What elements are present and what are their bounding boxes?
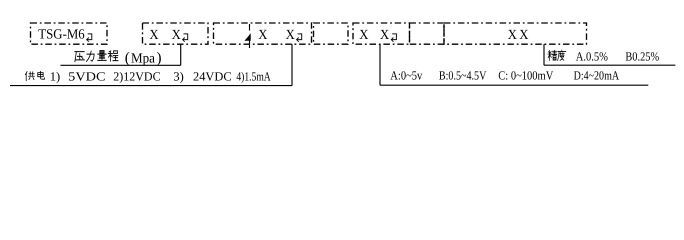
- linebreak mark field 2: [297, 34, 302, 42]
- svg-text:Mpa: Mpa: [131, 51, 156, 66]
- svg-text:2)12VDC: 2)12VDC: [113, 69, 160, 83]
- box XX field 1: [143, 23, 209, 44]
- small digit 4: [246, 34, 251, 41]
- svg-text:X: X: [258, 28, 267, 43]
- svg-text:TSG-M6: TSG-M6: [38, 28, 84, 43]
- svg-text:(: (: [125, 50, 130, 67]
- svg-text:A:0~5v: A:0~5v: [390, 69, 423, 83]
- label 压力量程: [75, 52, 85, 62]
- svg-text:B:0.5~4.5V: B:0.5~4.5V: [439, 69, 487, 83]
- box empty small 2: [410, 23, 445, 44]
- callout pressure-range underline: [61, 64, 181, 66]
- svg-text:X: X: [380, 28, 389, 43]
- callout output underline: [380, 84, 648, 86]
- svg-text:): ): [156, 50, 161, 67]
- svg-text:A.0.5%: A.0.5%: [576, 49, 608, 63]
- svg-text:5VDC: 5VDC: [68, 69, 105, 83]
- linebreak mark after TSG-M6: [87, 34, 92, 42]
- svg-text:C: 0~100mV: C: 0~100mV: [498, 69, 553, 83]
- svg-text:X: X: [359, 28, 368, 43]
- box TSG-M6: [31, 23, 108, 44]
- callout output riser: [379, 44, 381, 85]
- svg-text:D:4~20mA: D:4~20mA: [574, 69, 620, 83]
- callout supply underline: [10, 85, 292, 87]
- box empty small 1: [314, 23, 349, 44]
- svg-text:X: X: [286, 28, 295, 43]
- callout accuracy underline: [544, 64, 675, 66]
- svg-text:1): 1): [50, 69, 60, 83]
- callout supply riser: [291, 44, 293, 85]
- svg-text:B0.25%: B0.25%: [625, 49, 659, 63]
- svg-text:X: X: [172, 28, 181, 43]
- box XX field 4: [444, 23, 587, 44]
- label 供电: [25, 72, 34, 81]
- svg-text:X: X: [149, 28, 158, 43]
- linebreak mark field 1: [183, 34, 188, 42]
- box XX field 3: [353, 23, 410, 44]
- svg-text:24VDC: 24VDC: [193, 69, 232, 83]
- callout pressure-range riser: [180, 44, 182, 65]
- linebreak mark field 3: [391, 34, 396, 42]
- divider dash in box field 2: [249, 24, 251, 48]
- svg-text:X: X: [519, 28, 528, 43]
- box XX field 2: [214, 23, 312, 44]
- svg-text:X: X: [508, 28, 517, 43]
- svg-text:3): 3): [173, 69, 183, 83]
- callout accuracy riser: [543, 44, 545, 65]
- svg-text:4)1.5mA: 4)1.5mA: [236, 69, 270, 83]
- label 精度: [548, 50, 557, 60]
